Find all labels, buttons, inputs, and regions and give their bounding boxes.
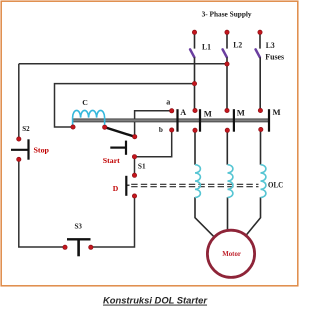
wire M1 to OLC1: [194, 130, 196, 164]
node coil C left: [71, 125, 75, 129]
contact M3 bar: [268, 109, 270, 132]
caption Konstruksi DOL Starter: [103, 295, 208, 306]
node L3 supply: [258, 30, 262, 34]
wire coil loop from L1 to coil C: [55, 84, 195, 127]
node M2 top: [225, 108, 229, 112]
svg-text:Fuses: Fuses: [265, 52, 284, 61]
label Stop: [34, 146, 50, 155]
wire control top from L2 to left: [19, 63, 227, 65]
OLC coil 1: [195, 165, 200, 198]
label M3: [273, 107, 281, 117]
node a: [170, 109, 174, 113]
svg-text:Stop: Stop: [34, 146, 50, 155]
svg-text:L2: L2: [233, 40, 242, 50]
label L3: [266, 40, 275, 50]
svg-text:L1: L1: [202, 42, 211, 52]
svg-text:L3: L3: [266, 40, 275, 50]
svg-text:M: M: [237, 108, 245, 118]
svg-text:a: a: [166, 98, 170, 107]
label S3: [75, 223, 83, 231]
contact A bar: [176, 109, 178, 132]
label OLC: [268, 179, 283, 189]
node M2 bottom: [225, 128, 229, 132]
wire OLC1 to motor: [195, 197, 214, 237]
contact D bar: [126, 176, 129, 196]
node L2 control tap: [225, 62, 229, 66]
fuse F3: [256, 49, 260, 57]
node S3 right: [89, 245, 93, 249]
start button: [110, 141, 126, 155]
svg-text:Motor: Motor: [222, 249, 241, 258]
label a: [166, 98, 170, 107]
svg-text:Konstruksi DOL Starter: Konstruksi DOL Starter: [103, 295, 208, 306]
node S1 junction: [132, 155, 136, 159]
OLC coil 3: [261, 165, 266, 198]
wire L3 column upper: [259, 32, 261, 48]
wire blade tip to node a: [135, 111, 172, 137]
coil C: [73, 110, 105, 125]
wire M3 to OLC3: [260, 130, 262, 164]
node M1 top: [193, 108, 197, 112]
svg-text:Start: Start: [103, 156, 121, 165]
label S2: [22, 125, 30, 133]
trip linkage dashed: [131, 184, 258, 186]
fuse F1: [190, 49, 194, 57]
node b: [170, 128, 174, 132]
node S2 bottom: [17, 157, 21, 161]
label S1: [138, 161, 146, 170]
node M3 bottom: [259, 127, 263, 131]
contact M2 bar: [233, 109, 235, 132]
wire S2 to S3: [19, 159, 65, 247]
label Fuses: [265, 52, 284, 61]
wire L2 column upper: [226, 32, 228, 48]
label M1: [204, 109, 212, 119]
svg-text:OLC: OLC: [268, 179, 283, 189]
label L1: [202, 42, 211, 52]
contact M1 bar: [199, 109, 201, 132]
label C: [82, 98, 88, 107]
node D bottom: [132, 194, 136, 198]
label 3-Phase Supply: [202, 10, 252, 19]
wire OLC2 to motor: [227, 197, 229, 230]
OLC coil 2: [228, 165, 233, 198]
wire M2 to OLC2: [226, 130, 228, 164]
node S3 left: [63, 245, 67, 249]
label Start: [103, 156, 121, 165]
wire L2 column to contact M2: [226, 57, 228, 110]
button S3: [67, 239, 91, 256]
svg-text:M: M: [273, 107, 281, 117]
label L2: [233, 40, 242, 50]
wire OLC3 to motor: [246, 197, 261, 235]
svg-text:b: b: [159, 126, 163, 134]
svg-text:D: D: [113, 184, 119, 193]
node S2 top: [17, 137, 21, 141]
svg-text:A: A: [180, 108, 186, 117]
wire left drop to S2: [18, 64, 20, 139]
label M2: [237, 108, 245, 118]
label A: [180, 108, 186, 117]
motor: [207, 230, 254, 277]
svg-text:S2: S2: [22, 125, 30, 133]
wire L1 column to contact M1: [194, 57, 196, 110]
wire junction to node b: [135, 130, 172, 157]
label b: [159, 126, 163, 134]
svg-text:M: M: [204, 109, 212, 119]
switch S1 blade: [105, 127, 135, 137]
stop button S2: [11, 139, 29, 159]
svg-text:C: C: [82, 98, 88, 107]
node L2 supply: [225, 30, 229, 34]
wire D top to junction: [134, 157, 136, 176]
wire L1 column upper: [194, 32, 196, 48]
node L1 supply: [192, 30, 196, 34]
svg-text:3- Phase Supply: 3- Phase Supply: [202, 10, 252, 19]
svg-text:S3: S3: [75, 223, 83, 231]
node M3 top: [258, 108, 262, 112]
wire L3 column to contact M3: [259, 57, 261, 110]
node coil C right: [103, 125, 107, 129]
svg-text:S1: S1: [138, 161, 146, 170]
node L1 coil tap: [192, 81, 196, 85]
label D: [113, 184, 119, 193]
node M1 bottom: [193, 128, 197, 132]
node D top: [132, 173, 136, 177]
wire S3 to D bottom: [91, 196, 135, 247]
node blade tip: [133, 135, 137, 139]
grey contactor bar: [73, 119, 269, 122]
fuse F2: [223, 49, 227, 57]
